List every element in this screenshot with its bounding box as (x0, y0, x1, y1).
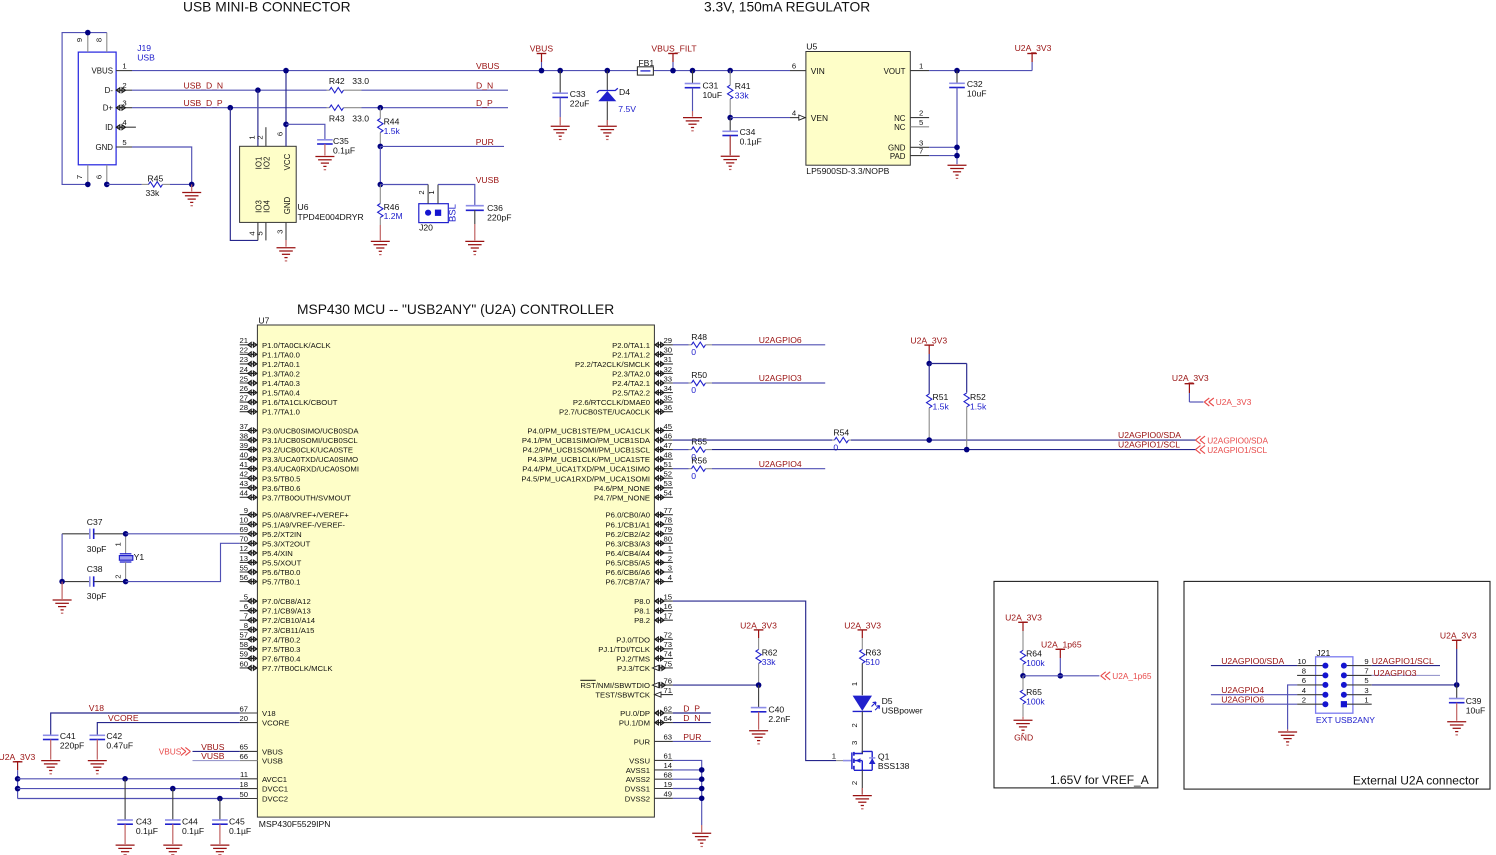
wire VOUT to U2A_3V3 (929, 70, 1032, 72)
U7 pin 11 AVCC1 (240, 778, 258, 780)
J20 pin 1 (437, 185, 439, 204)
U7 pin 21 P1.0/TA0CLK/ACLK (240, 344, 258, 346)
svg-text:2: 2 (113, 574, 122, 578)
svg-text:VUSB: VUSB (262, 757, 283, 766)
svg-text:U2AGPIO1/SCL: U2AGPIO1/SCL (1372, 656, 1434, 666)
U7 pin 67 V18 (240, 712, 258, 714)
svg-text:P4.6/PM_NONE: P4.6/PM_NONE (594, 484, 650, 493)
svg-text:62: 62 (663, 704, 672, 713)
svg-text:3.3V, 150mA REGULATOR: 3.3V, 150mA REGULATOR (704, 0, 870, 15)
svg-text:DVCC2: DVCC2 (262, 795, 288, 804)
wire J19 shell loop (62, 33, 107, 185)
U7 pin 66 VUSB (240, 760, 258, 762)
wire VCC branch to C35 (286, 124, 325, 140)
svg-text:32: 32 (663, 365, 672, 374)
svg-text:57: 57 (239, 631, 248, 640)
svg-text:51: 51 (663, 460, 672, 469)
J21 pin 8 (1297, 674, 1325, 676)
svg-text:D_N: D_N (476, 81, 493, 91)
wire VBUS main (132, 70, 790, 72)
wire DVCC1 (18, 788, 240, 790)
svg-text:U2A_3V3: U2A_3V3 (1440, 630, 1477, 640)
svg-text:ID: ID (105, 123, 113, 132)
U7 pin 1 P6.4/CB4/A4 (654, 552, 673, 554)
junction C39 (1454, 682, 1460, 688)
svg-text:P7.1/CB9/A13: P7.1/CB9/A13 (262, 607, 311, 616)
U6 pin 3 GND (285, 222, 287, 240)
svg-text:61: 61 (663, 752, 672, 761)
svg-text:30: 30 (663, 346, 672, 355)
svg-text:66: 66 (239, 752, 248, 761)
svg-text:P2.3/TA2.0: P2.3/TA2.0 (612, 369, 650, 378)
svg-text:220pF: 220pF (487, 212, 511, 222)
svg-text:R50: R50 (691, 370, 707, 380)
J19 pin 9 shell stub (87, 33, 89, 53)
svg-text:C39: C39 (1466, 696, 1482, 706)
U5 pin 1 VOUT (910, 70, 929, 72)
U7 pin 56 P5.7/TB0.1 (240, 581, 258, 583)
svg-text:U2AGPIO1/SCL: U2AGPIO1/SCL (1118, 440, 1180, 450)
svg-text:D-: D- (105, 86, 114, 95)
U7 pin 60 P7.7/TB0CLK/MCLK (240, 667, 258, 669)
svg-text:72: 72 (663, 631, 672, 640)
ferrite bead FB1 (637, 67, 653, 75)
svg-text:52: 52 (663, 470, 672, 479)
J19 pin 3 D+ (116, 107, 132, 109)
svg-text:2: 2 (255, 135, 264, 139)
U7 pin 50 DVCC2 (240, 798, 258, 800)
svg-text:PJ.0/TDO: PJ.0/TDO (616, 635, 650, 644)
svg-text:AVSS1: AVSS1 (626, 766, 650, 775)
capacitor C41 220pF (43, 734, 59, 736)
svg-text:Y1: Y1 (134, 552, 145, 562)
svg-text:7: 7 (919, 147, 923, 156)
svg-text:PUR: PUR (476, 137, 494, 147)
svg-text:P3.3/UCA0TXD/UCA0SIMO: P3.3/UCA0TXD/UCA0SIMO (262, 455, 358, 464)
svg-text:VIN: VIN (811, 66, 825, 76)
U7 pin 64 PU.1/DM (654, 722, 673, 724)
svg-text:P1.4/TA0.3: P1.4/TA0.3 (262, 379, 300, 388)
J21 pin 3 (1344, 694, 1372, 696)
svg-text:P2.4/TA2.1: P2.4/TA2.1 (612, 379, 650, 388)
svg-text:P2.6/RTCCLK/DMAE0: P2.6/RTCCLK/DMAE0 (573, 398, 650, 407)
svg-text:22: 22 (239, 346, 248, 355)
resistor R55 0 (673, 449, 689, 451)
svg-text:PJ.3/TCK: PJ.3/TCK (617, 664, 651, 673)
svg-text:P8.2: P8.2 (634, 616, 650, 625)
svg-text:U7: U7 (258, 315, 269, 325)
svg-text:24: 24 (239, 365, 248, 374)
svg-text:VCORE: VCORE (108, 713, 139, 723)
svg-text:GND: GND (95, 143, 113, 152)
svg-text:15: 15 (663, 592, 672, 601)
svg-text:D_N: D_N (683, 713, 700, 723)
svg-text:67: 67 (239, 704, 248, 713)
svg-text:1: 1 (668, 544, 672, 553)
wire V18 (51, 713, 240, 735)
U7 pin 16 P8.1 (654, 610, 673, 612)
ground symbol R65 GND (1022, 717, 1024, 720)
J19 pin 4 ID (116, 126, 136, 128)
J21 pin 10 (1297, 665, 1325, 667)
svg-text:P3.6/TB0.6: P3.6/TB0.6 (262, 484, 300, 493)
ground symbol C40 (758, 712, 760, 730)
svg-text:14: 14 (663, 761, 672, 770)
junction crystal gnd (59, 579, 65, 585)
svg-text:P5.7/TB0.1: P5.7/TB0.1 (262, 578, 300, 587)
svg-text:U2AGPIO0/SDA: U2AGPIO0/SDA (1221, 656, 1284, 666)
junction shell bottom pin7 (85, 182, 91, 188)
svg-text:FB1: FB1 (638, 58, 654, 68)
svg-text:P7.3/CB11/A15: P7.3/CB11/A15 (262, 626, 314, 635)
svg-text:VOUT: VOUT (884, 67, 906, 76)
svg-text:U2AGPIO6: U2AGPIO6 (1221, 694, 1264, 704)
svg-text:47: 47 (663, 441, 672, 450)
U7 pin 14 AVSS1 (654, 769, 673, 771)
svg-text:VUSB: VUSB (201, 751, 225, 761)
junction XT2IN (123, 531, 129, 537)
wire U2AGPIO1/SCL (712, 449, 1196, 451)
svg-text:100k: 100k (1026, 658, 1045, 668)
resistor R62 33k (758, 638, 760, 649)
svg-text:P2.0/TA1.1: P2.0/TA1.1 (612, 341, 650, 350)
svg-text:6: 6 (94, 175, 103, 179)
junction C45 (217, 796, 223, 802)
svg-text:P5.5/XOUT: P5.5/XOUT (262, 558, 302, 567)
J21 pin 5 (1344, 684, 1372, 686)
svg-text:PU.1/DM: PU.1/DM (619, 719, 650, 728)
svg-text:P7.4/TB0.2: P7.4/TB0.2 (262, 635, 300, 644)
svg-text:12: 12 (239, 544, 248, 553)
U7 pin 26 P1.5/TA0.4 (240, 392, 258, 394)
svg-text:45: 45 (663, 422, 672, 431)
svg-text:3: 3 (668, 563, 672, 572)
svg-text:33.0: 33.0 (352, 113, 369, 123)
svg-text:10: 10 (239, 516, 248, 525)
svg-text:5: 5 (255, 231, 264, 235)
svg-text:AVSS2: AVSS2 (626, 775, 650, 784)
svg-text:64: 64 (663, 714, 672, 723)
svg-text:17: 17 (663, 612, 672, 621)
svg-text:U2A_3V3: U2A_3V3 (740, 620, 777, 630)
U7 pin 13 P5.5/XOUT (240, 561, 258, 563)
transistor Q1 BSS138 (836, 760, 843, 762)
svg-text:P4.0/PM_UCB1STE/PM_UCA1CLK: P4.0/PM_UCB1STE/PM_UCA1CLK (527, 427, 650, 436)
wire D_N after R42 (362, 89, 509, 91)
svg-text:RST/NMI/SBWTDIO: RST/NMI/SBWTDIO (580, 681, 650, 690)
svg-text:U6: U6 (298, 202, 309, 212)
svg-text:P4.2/PM_UCB1SOMI/PM_UCB1SCL: P4.2/PM_UCB1SOMI/PM_UCB1SCL (523, 446, 651, 455)
svg-text:7: 7 (75, 175, 84, 179)
svg-text:V18: V18 (262, 709, 276, 718)
svg-text:0.1µF: 0.1µF (740, 136, 762, 146)
svg-text:0: 0 (691, 347, 696, 357)
diode D4 zener 7.5V (605, 68, 611, 74)
svg-text:GND: GND (283, 196, 292, 214)
svg-text:6: 6 (276, 132, 285, 136)
wire U2AGPIO4 (712, 468, 825, 470)
U7 pin 22 P1.1/TA0.0 (240, 353, 258, 355)
U5 pin 4 VEN (790, 117, 806, 119)
svg-text:VBUS: VBUS (262, 747, 283, 756)
J19 pin 8 shell stub (106, 33, 108, 53)
U7 pin 46 P4.1/PM_UCB1SIMO/PM_UCB1SDA (654, 439, 673, 441)
U7 pin 54 P4.7/PM_NONE (654, 496, 673, 498)
U7 pin 6 P7.1/CB9/A13 (240, 610, 258, 612)
J21 pin 6 (1297, 684, 1325, 686)
U7 pin 43 P3.6/TB0.6 (240, 487, 258, 489)
svg-text:R45: R45 (148, 173, 164, 183)
capacitor C43 0.1uF (124, 779, 126, 820)
U7 pin 32 P2.3/TA2.0 (654, 372, 673, 374)
junction VEN (727, 115, 733, 121)
resistor R52 1.5k (964, 393, 969, 407)
svg-text:29: 29 (663, 336, 672, 345)
svg-text:C44: C44 (182, 816, 198, 826)
svg-text:1: 1 (1364, 696, 1368, 705)
U7 pin 62 PU.0/DP (654, 712, 673, 714)
svg-text:VBUS: VBUS (92, 67, 114, 76)
svg-text:6: 6 (1302, 676, 1306, 685)
svg-text:8: 8 (94, 38, 103, 42)
junction VUSB (378, 182, 384, 188)
wire VBUS to pin65 (193, 750, 240, 752)
U7 pin 40 P3.3/UCA0TXD/UCA0SIMO (240, 458, 258, 460)
svg-text:P1.0/TA0CLK/ACLK: P1.0/TA0CLK/ACLK (262, 341, 332, 350)
svg-text:PJ.2/TMS: PJ.2/TMS (616, 654, 650, 663)
svg-text:DVSS2: DVSS2 (625, 794, 650, 803)
off-page connector U2A_1p65 (1101, 672, 1111, 680)
svg-text:4: 4 (668, 573, 673, 582)
svg-text:P5.0/A8/VREF+/VEREF+: P5.0/A8/VREF+/VEREF+ (262, 511, 349, 520)
svg-text:100k: 100k (1026, 696, 1045, 706)
svg-text:33.0: 33.0 (352, 76, 369, 86)
svg-text:D+: D+ (103, 104, 114, 113)
junction D- to U6 (255, 87, 261, 93)
U7 pin 4 P6.7/CB7/A7 (654, 581, 673, 583)
wire U2AGPIO0/SDA to R54 (673, 439, 832, 441)
U7 pin 7 P7.2/CB10/A14 (240, 619, 258, 621)
wire U6 VCC to VBUS (285, 71, 287, 147)
svg-text:1: 1 (122, 62, 126, 71)
ground symbol C33 (559, 97, 561, 117)
svg-text:70: 70 (239, 535, 248, 544)
svg-text:U2A_3V3: U2A_3V3 (844, 620, 881, 630)
wire pull-up branch (929, 363, 967, 365)
U7 pin 72 PJ.0/TDO (654, 638, 673, 640)
capacitor C45 0.1uF (219, 799, 221, 821)
svg-text:1: 1 (427, 190, 436, 194)
junction DVSS2 (699, 796, 705, 802)
svg-text:69: 69 (239, 525, 248, 534)
U7 pin 77 P6.0/CB0/A0 (654, 514, 673, 516)
svg-text:30pF: 30pF (87, 591, 107, 601)
svg-text:U2A_3V3: U2A_3V3 (1015, 43, 1052, 53)
capacitor C33 22uF (557, 68, 563, 74)
svg-text:U2AGPIO6: U2AGPIO6 (759, 335, 802, 345)
svg-text:7: 7 (1364, 667, 1368, 676)
svg-text:9: 9 (244, 506, 248, 515)
wire VUSB to J20 pin2 (380, 184, 428, 186)
U7 pin 63 PUR (654, 740, 673, 742)
svg-text:VBUS: VBUS (476, 61, 500, 71)
U7 pin 58 P7.5/TB0.3 (240, 648, 258, 650)
svg-text:C38: C38 (87, 564, 103, 574)
off-page connector U2A_3V3 (1204, 398, 1214, 406)
svg-text:NC: NC (894, 123, 906, 132)
svg-text:PUR: PUR (683, 732, 701, 742)
U7 pin 27 P1.6/TA1CLK/CBOUT (240, 401, 258, 403)
ground symbol C35 (324, 144, 326, 156)
ground symbol VSS (701, 825, 703, 832)
svg-text:P1.3/TA0.2: P1.3/TA0.2 (262, 369, 300, 378)
junction RST (756, 682, 762, 688)
wire VCORE (97, 723, 239, 736)
svg-text:BSL: BSL (447, 204, 458, 222)
svg-text:U2A_3V3: U2A_3V3 (0, 752, 36, 762)
svg-text:U2AGPIO0/SDA: U2AGPIO0/SDA (1118, 430, 1181, 440)
wire D_N pin64 (673, 722, 711, 724)
svg-text:33k: 33k (735, 90, 750, 100)
svg-text:EXT USB2ANY: EXT USB2ANY (1316, 715, 1375, 725)
svg-text:6: 6 (244, 602, 248, 611)
U7 pin 33 P2.4/TA2.1 (654, 382, 673, 384)
svg-text:3: 3 (850, 741, 859, 745)
ground symbol C45 (219, 824, 221, 844)
svg-text:31: 31 (663, 355, 672, 364)
U7 pin 8 P7.3/CB11/A15 (240, 629, 258, 631)
svg-text:P2.5/TA2.2: P2.5/TA2.2 (612, 389, 650, 398)
svg-text:46: 46 (663, 431, 672, 440)
wire DVCC2 (18, 798, 240, 800)
D5 pin 2 (861, 711, 863, 750)
wire U2A_1p65 (1023, 675, 1099, 677)
svg-text:71: 71 (663, 686, 672, 695)
junction DVSS1 (699, 786, 705, 792)
svg-text:P6.7/CB7/A7: P6.7/CB7/A7 (606, 578, 650, 587)
capacitor C34 0.1uF (729, 118, 731, 132)
svg-text:1.5k: 1.5k (384, 126, 401, 136)
wire U2AGPIO0/SDA (J21) (1211, 665, 1297, 667)
U7 pin 25 P1.4/TA0.3 (240, 382, 258, 384)
wire to off-page U2A_3V3 (1189, 401, 1203, 403)
U7 pin 80 P6.3/CB3/A3 (654, 542, 673, 544)
U7 pin 61 VSSU (654, 759, 673, 761)
U5 pin 5 NC (910, 126, 929, 128)
resistor R56 0 (673, 468, 689, 470)
resistor R43 33.0 (327, 107, 330, 109)
wire VUSB to pin66 (193, 760, 240, 762)
svg-text:48: 48 (663, 450, 672, 459)
resistor R51 1.5k (928, 364, 930, 394)
U7 pin 28 P1.7/TA1.0 (240, 411, 258, 413)
wire D- riser to U6 IO1 (257, 90, 259, 146)
svg-text:VBUS: VBUS (159, 747, 182, 757)
svg-text:8: 8 (1302, 667, 1306, 676)
junction VCC VBUS (283, 68, 289, 74)
svg-text:U2A_3V3: U2A_3V3 (910, 335, 947, 345)
svg-text:220pF: 220pF (60, 741, 84, 751)
svg-text:DVCC1: DVCC1 (262, 785, 288, 794)
junction D+ to U6 (228, 105, 234, 111)
junction U2A_1p65 (1058, 673, 1064, 679)
wire U2AGPIO6 (712, 344, 825, 346)
svg-text:D4: D4 (619, 87, 630, 97)
svg-text:55: 55 (239, 563, 248, 572)
group box 1.65V for VREF_A (994, 581, 1158, 788)
svg-text:R56: R56 (691, 456, 707, 466)
U7 pin 18 DVCC1 (240, 788, 258, 790)
U7 pin 42 P3.5/TB0.5 (240, 477, 258, 479)
svg-text:P4.5/PM_UCA1RXD/PM_UCA1SOMI: P4.5/PM_UCA1RXD/PM_UCA1SOMI (521, 474, 650, 483)
svg-text:USBpower: USBpower (882, 706, 923, 716)
svg-text:8: 8 (244, 621, 248, 630)
svg-text:58: 58 (239, 640, 248, 649)
svg-text:2: 2 (668, 554, 672, 563)
connector J19 USB mini-B (78, 52, 116, 165)
svg-text:2: 2 (850, 723, 859, 727)
svg-text:10uF: 10uF (1466, 705, 1486, 715)
svg-text:Q1: Q1 (878, 751, 890, 761)
wire P8.0 to Q1 gate (673, 601, 836, 761)
capacitor C39 10uF (1456, 685, 1458, 699)
ground symbol J21 (1287, 729, 1289, 731)
svg-text:C33: C33 (570, 89, 586, 99)
svg-text:13: 13 (239, 554, 248, 563)
ground symbol U6 (285, 240, 287, 247)
svg-text:10uF: 10uF (703, 90, 723, 100)
svg-text:35: 35 (663, 393, 672, 402)
svg-text:P1.6/TA1CLK/CBOUT: P1.6/TA1CLK/CBOUT (262, 398, 338, 407)
svg-text:30pF: 30pF (87, 544, 107, 554)
svg-text:J19: J19 (137, 43, 151, 53)
capacitor C44 0.1uF (172, 789, 174, 820)
svg-text:GND: GND (1014, 733, 1033, 743)
wire R44 to VUSB junction (379, 146, 381, 184)
svg-text:U5: U5 (806, 42, 817, 52)
svg-text:P6.4/CB4/A4: P6.4/CB4/A4 (606, 549, 651, 558)
svg-text:R54: R54 (833, 428, 849, 438)
svg-text:P4.4/PM_UCA1TXD/PM_UCA1SIMO: P4.4/PM_UCA1TXD/PM_UCA1SIMO (522, 465, 650, 474)
J19 pin 2 D- (116, 89, 132, 91)
U5 pin 3 GND (910, 146, 929, 148)
junction pull-up top (926, 361, 932, 367)
junction VBUS_FILT (670, 68, 676, 74)
U7 pin 69 P5.2/XT2IN (240, 533, 258, 535)
svg-text:43: 43 (239, 479, 248, 488)
svg-text:C40: C40 (768, 705, 784, 715)
ground symbol J19 (191, 184, 193, 191)
ground symbol R46 (379, 225, 381, 240)
svg-text:2: 2 (850, 781, 859, 785)
U7 pin 52 P4.5/PM_UCA1RXD/PM_UCA1SOMI (654, 477, 673, 479)
wire XT2IN (126, 533, 240, 535)
wire PUR (380, 145, 504, 147)
wire AVCC1 (18, 778, 240, 780)
svg-text:R55: R55 (691, 437, 707, 447)
U7 pin 65 VBUS (240, 750, 258, 752)
svg-text:10: 10 (1297, 657, 1306, 666)
resistor R65 100k (1022, 676, 1024, 690)
U7 pin 51 P4.4/PM_UCA1TXD/PM_UCA1SIMO (654, 468, 673, 470)
U7 pin 23 P1.2/TA0.1 (240, 363, 258, 365)
svg-text:1.5k: 1.5k (933, 402, 950, 412)
U7 pin 79 P6.2/CB2/A2 (654, 533, 673, 535)
capacitor C40 2.2nF (758, 685, 760, 708)
svg-text:0: 0 (691, 471, 696, 481)
svg-text:C34: C34 (740, 127, 756, 137)
U7 pin 37 P3.0/UCB0SIMO/UCB0SDA (240, 430, 258, 432)
